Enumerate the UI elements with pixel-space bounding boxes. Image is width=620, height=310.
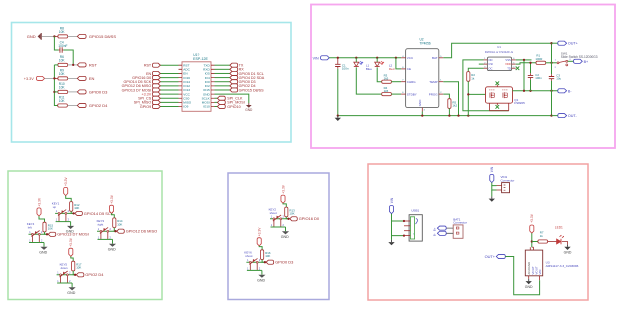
frame: keys middle section (purple) (228, 173, 329, 300)
port GPIO10 (U4 right pin) (215, 104, 241, 108)
junction KEY4 (46, 233, 48, 235)
port B+ (BAT1) (432, 226, 446, 231)
wire R13 to key junction (286, 217, 288, 219)
svg-text:+3.3V: +3.3V (64, 176, 68, 186)
svg-text:GND: GND (418, 99, 422, 107)
wire R11 to port (67, 105, 77, 107)
resistor R15 10K (43, 222, 54, 232)
wire R9 to port (68, 77, 78, 79)
wire VIN1 wiring (492, 183, 497, 197)
svg-text:TEMP: TEMP (429, 80, 437, 84)
wire R12 to key junction (71, 211, 73, 213)
resistor R9 10K (58, 69, 68, 80)
wire R8 to port (68, 35, 78, 37)
svg-text:+3.3V: +3.3V (258, 227, 262, 237)
wire R15 to key junction (45, 232, 48, 234)
svg-text:GPIO12 D6 MISO: GPIO12 D6 MISO (126, 229, 158, 234)
switch SW1 Slide Switch SS-12D00G3 (555, 52, 598, 69)
resistor R1 100R (535, 54, 545, 65)
junction R10 bus (53, 91, 55, 93)
svg-text:GND: GND (39, 251, 47, 255)
svg-text:+3.3V: +3.3V (110, 194, 114, 204)
svg-text:USB1: USB1 (411, 209, 419, 213)
svg-text:1k: 1k (540, 234, 544, 238)
svg-text:OD: OD (488, 58, 492, 62)
wire to OUT- port (552, 115, 558, 117)
svg-text:10K: 10K (59, 86, 66, 90)
svg-text:GND: GND (525, 285, 533, 289)
svg-text:10K: 10K (59, 99, 66, 103)
resistor R17 10K (72, 261, 82, 271)
svg-text:GPIO15 D8/SS: GPIO15 D8/SS (239, 88, 265, 92)
wire +3.3V node (531, 233, 533, 247)
wire U4 GND pin to ground (215, 94, 249, 103)
svg-text:down: down (61, 266, 68, 270)
capacitor C1 100n (335, 58, 349, 116)
net flag +3.3V (KEY1) (64, 176, 68, 195)
wire R17 to key junction (73, 271, 75, 275)
ground (U3) (525, 279, 533, 289)
junction switch common (550, 62, 552, 64)
svg-text:100R: 100R (535, 57, 542, 61)
transistor Q1 FS8205 (dual mosfet) (486, 85, 526, 111)
port OUT+ (to regulator) (485, 254, 506, 259)
connector VIN1 (497, 175, 515, 193)
svg-text:shoot: shoot (270, 211, 277, 215)
ground (U4 GND) (245, 103, 253, 112)
junction gnd TEMP (457, 114, 459, 116)
port GPIO14 D5 SCK (KEY1) (75, 211, 114, 216)
svg-text:GPIO13 D7 MOSI: GPIO13 D7 MOSI (57, 232, 89, 237)
junction R1/C2 (529, 62, 531, 64)
port GPIO2 D4 (U4 right pin) (215, 84, 256, 88)
svg-text:STDBY: STDBY (407, 92, 417, 96)
svg-text:shoot: shoot (245, 254, 252, 258)
svg-text:GND: GND (564, 251, 572, 255)
port VIN (USB) (389, 197, 393, 214)
svg-text:CHRG: CHRG (407, 80, 416, 84)
wire TEMP to ground rail (443, 82, 458, 116)
wire R4 to STDBY (391, 93, 401, 95)
svg-text:GND: GND (27, 34, 36, 39)
port GPIO4 D2 SDA (U4 right pin) (215, 76, 265, 80)
svg-text:10K: 10K (76, 266, 81, 270)
port EN (U4 left pin 3) (146, 71, 178, 75)
svg-text:1k5: 1k5 (384, 89, 389, 93)
port SPI_MOSI (U4 right pin) (215, 100, 245, 104)
wire VB rail (329, 57, 401, 59)
junction OUT+ (550, 42, 552, 44)
connector USB1 (404, 209, 422, 241)
port GPIO2 D4 (KEY5) (76, 272, 104, 277)
ground (LED1) (564, 245, 572, 255)
svg-text:10K: 10K (59, 59, 66, 63)
junction KEY3 (114, 230, 116, 232)
resistor R3 1k5 (382, 74, 392, 84)
wire to OUT+ port (552, 42, 558, 44)
port SPI_MISO (U4 left pin 10) (134, 100, 179, 104)
op module U4 ESP-12E body (179, 53, 215, 111)
junction KEY6 (264, 261, 266, 263)
svg-text:OUT+: OUT+ (568, 42, 578, 46)
svg-text:IO9: IO9 (183, 105, 188, 109)
wire R16 to key junction (262, 260, 265, 263)
wire +3.3V to bus (45, 77, 58, 79)
IC U1 DW01A or FS312F-G (484, 45, 516, 71)
wire VSS to B- row (516, 59, 532, 91)
junction gnd OC (467, 114, 469, 116)
port EN (pull) (77, 76, 94, 81)
svg-text:Connector: Connector (453, 221, 467, 225)
svg-text:1k: 1k (471, 76, 475, 80)
svg-text:VDD: VDD (505, 62, 511, 66)
junction B- C2 (529, 90, 531, 92)
port GPIO0 D3 (KEY6) (266, 260, 294, 265)
wire Q1 to B- row (513, 90, 558, 92)
resistor R16 10K (261, 250, 271, 260)
resistor R5 1k2 (448, 99, 458, 109)
svg-text:GPIO9: GPIO9 (140, 105, 151, 109)
svg-text:+3.3V: +3.3V (37, 197, 41, 207)
wire R1 to switch (546, 62, 557, 64)
svg-text:100n: 100n (342, 67, 349, 71)
svg-text:Red: Red (389, 67, 395, 71)
key button KEY4 left (27, 222, 48, 254)
svg-text:GPIO0 D3: GPIO0 D3 (89, 90, 108, 95)
IC U3 AMS1117-3.3 (525, 247, 578, 280)
junction USB gnd (403, 234, 405, 236)
svg-text:Blue: Blue (366, 67, 372, 71)
svg-text:GND: GND (245, 108, 253, 112)
junction KEY1 (72, 212, 74, 214)
net flag +3.3V (KEY4) (37, 197, 41, 216)
port GPIO16 D0 (KEY2) (290, 216, 320, 221)
wire C4 to RST net (63, 50, 73, 65)
svg-text:DW01A or FS312F-G: DW01A or FS312F-G (485, 50, 514, 54)
wire VDD to R1 (516, 63, 536, 64)
ground rail wire (338, 115, 552, 117)
svg-text:GPIO2 D4: GPIO2 D4 (89, 103, 108, 108)
svg-text:up: up (53, 205, 57, 209)
key button KEY2 shoot (269, 208, 290, 239)
junction B- VSS (523, 90, 525, 92)
svg-text:B-: B- (432, 233, 436, 236)
svg-text:VIN: VIN (313, 56, 319, 60)
LED L1 Blue (354, 58, 372, 71)
junction L2 (376, 57, 378, 59)
port GPIO13 D7 MOSI (KEY4) (48, 232, 89, 237)
resistor R6 10K (58, 55, 68, 66)
ground (USB) (388, 240, 394, 245)
svg-text:100n: 100n (535, 76, 542, 80)
svg-text:10u: 10u (556, 77, 561, 81)
svg-text:right: right (98, 223, 104, 227)
svg-text:B+: B+ (584, 60, 589, 64)
wire +3.3V to R17 (71, 256, 73, 261)
port B+ (574, 59, 589, 64)
wire switch to B+ (568, 60, 574, 62)
svg-text:FS8205: FS8205 (514, 101, 525, 105)
key button KEY5 down (57, 263, 76, 295)
frame: MCU section (cyan) (12, 23, 292, 143)
resistor R7 1k (538, 231, 548, 243)
wire L2 to R3 (377, 67, 382, 81)
wire PROG to R5 (443, 94, 449, 99)
resistor R11 10K (58, 96, 68, 107)
frame: power/charger section (pink) (311, 5, 615, 149)
wire +3.3V to R13 (283, 203, 286, 207)
port GPIO2 D4 (pull) (77, 103, 108, 108)
svg-text:GND: GND (67, 291, 75, 295)
power ground (charger) (335, 116, 341, 121)
net flag GND (pull-up network) (27, 33, 41, 40)
port GPIO0 D3 (pull) (77, 90, 108, 95)
svg-text:VIN: VIN (490, 166, 494, 172)
port GPIO15 D8/SS (pull) (77, 34, 116, 39)
net flag +3.3V (KEY3) (109, 194, 113, 213)
svg-text:AMS1117-3.3_C203096: AMS1117-3.3_C203096 (546, 264, 579, 268)
svg-text:GPIO0 D3: GPIO0 D3 (275, 260, 294, 265)
resistor R2 1k (467, 72, 476, 82)
svg-text:ESP-12E: ESP-12E (193, 57, 208, 61)
svg-text:10K: 10K (265, 254, 270, 258)
junction regulator output (531, 240, 533, 242)
svg-text:10K: 10K (48, 227, 53, 231)
junction VCC/CE (395, 57, 397, 59)
svg-text:TP4056: TP4056 (420, 41, 431, 45)
port GPIO13 D7 MOSI (U4 left pin 7) (122, 88, 179, 92)
svg-text:U1: U1 (497, 45, 501, 49)
svg-text:OUT+: OUT+ (485, 254, 496, 259)
svg-text:GPIO15 D8/SS: GPIO15 D8/SS (89, 34, 116, 39)
svg-text:10K: 10K (117, 222, 122, 226)
net flag +3.3V (KEY2) (281, 184, 285, 203)
svg-text:+3.3V: +3.3V (281, 184, 285, 194)
resistor R14 10K (113, 218, 123, 228)
port VIN (VIN1) (490, 166, 494, 183)
LED LED1 (555, 225, 564, 244)
wire U2 GND to rail (421, 112, 423, 116)
svg-text:PROG: PROG (429, 92, 439, 96)
svg-text:10K: 10K (59, 72, 66, 76)
svg-text:CE: CE (407, 67, 411, 71)
junction RST/C4 (72, 64, 74, 66)
junction C1 (337, 57, 339, 59)
wire GND to R8 (42, 35, 58, 37)
port GPIO16 D0 (U4 left pin 4) (132, 76, 178, 80)
port VIN (charger input) (313, 56, 330, 61)
svg-text:VSS: VSS (505, 58, 511, 62)
capacitor C3 10u (549, 74, 562, 81)
port B- (BAT1) (432, 231, 446, 236)
port SPI_CLK (U4 right pin) (215, 96, 244, 100)
port RX (U4 right pin) (215, 67, 245, 71)
junction gnd C1 (337, 114, 339, 116)
wire L1 to R4 (356, 67, 381, 94)
net flag +3.3V (KEY5) (69, 237, 73, 256)
svg-text:GPIO16 D0: GPIO16 D0 (299, 216, 320, 221)
port OUT- (558, 114, 578, 119)
svg-text:VIN: VIN (390, 197, 394, 203)
svg-text:+3.3V: +3.3V (69, 237, 73, 247)
port B- (558, 89, 573, 94)
svg-text:GPIO10: GPIO10 (227, 105, 240, 109)
port RST (U4 left pin 1) (144, 63, 179, 67)
wire OC to R2 (468, 68, 483, 71)
wire R7 to LED1 (548, 241, 557, 243)
svg-text:10K: 10K (74, 206, 79, 210)
svg-text:10K: 10K (289, 212, 294, 216)
junction KEY2 (287, 218, 289, 220)
svg-text:B+: B+ (432, 227, 436, 231)
svg-text:Connector: Connector (501, 178, 515, 182)
svg-text:RST: RST (144, 64, 152, 68)
svg-text:CSI: CSI (488, 62, 493, 66)
junction OUT- rail (550, 114, 552, 116)
svg-text:left: left (28, 226, 32, 230)
frame: power-in/regulator section (red) (368, 164, 588, 300)
junction GND/C4 (53, 35, 55, 37)
svg-text:1k2: 1k2 (452, 103, 457, 107)
wire OUT+ branch vertical (551, 43, 553, 115)
wire BAT up to top rail (443, 43, 551, 58)
svg-text:GPIO2 D4: GPIO2 D4 (85, 272, 104, 277)
wire R10 to port (68, 91, 78, 93)
svg-text:+3.3V: +3.3V (530, 213, 534, 223)
resistor R13 10K (285, 207, 295, 217)
frame: keys left section (green) (8, 171, 162, 300)
svg-text:1k5: 1k5 (384, 77, 389, 81)
ground (VIN1) (489, 196, 495, 201)
port GPIO12 D6 MISO (KEY3) (117, 229, 158, 234)
wire LED1 to ground (562, 242, 568, 245)
resistor R10 10K (54, 82, 67, 93)
capacitor C4 100nF (58, 41, 67, 53)
key button KEY3 right (97, 219, 117, 251)
IC U2 TP4056 (401, 38, 443, 112)
port GPIO12 D6 MISO (U4 left pin 6) (122, 84, 179, 88)
wire R2 to ground rail (467, 81, 485, 115)
no-connect X on TD (516, 66, 520, 70)
port GPIO15 D8/SS (U4 right pin) (215, 88, 265, 92)
wire R6 row (54, 64, 77, 66)
wire R3 to CHRG (391, 81, 401, 83)
no-connect X Q1 top (496, 81, 500, 85)
svg-text:VCC: VCC (407, 56, 414, 60)
svg-text:Slide Switch SS-12D00G3: Slide Switch SS-12D00G3 (561, 55, 598, 59)
wire +3.3V to R12 (66, 196, 72, 202)
resistor R12 10K (70, 202, 80, 212)
wire junction down to C4 (54, 36, 58, 50)
svg-text:100nF: 100nF (58, 44, 67, 48)
wire VIN to USB pins (392, 214, 405, 240)
connector BAT1 (446, 217, 467, 238)
wire OD to Q1 gate (463, 60, 509, 111)
svg-text:GPIO14 D5 SCK: GPIO14 D5 SCK (84, 211, 114, 216)
svg-text:IO10: IO10 (203, 105, 210, 109)
svg-text:GND: GND (108, 247, 116, 251)
wire node to R7 (532, 241, 538, 243)
svg-text:LED1: LED1 (555, 225, 563, 229)
wire +3.3V to R14 (112, 213, 115, 218)
junction B- switch branch (550, 90, 552, 92)
svg-text:GND: GND (281, 235, 289, 239)
junction L1 (355, 57, 357, 59)
svg-text:+3.3V: +3.3V (24, 77, 34, 81)
svg-text:BAT: BAT (432, 56, 438, 60)
wire CE tie to VCC (396, 58, 401, 69)
svg-text:10K: 10K (59, 30, 66, 34)
junction gnd U2 (421, 114, 423, 116)
svg-text:GND: GND (257, 278, 265, 282)
port GPIO9 (U4 left pin 11) (140, 104, 179, 108)
svg-text:RST: RST (89, 63, 98, 68)
wire R14 to key junction (114, 228, 115, 232)
svg-text:EN: EN (89, 76, 95, 81)
capacitor C2 100n (528, 63, 542, 91)
net flag +3.3V (regulator out) (530, 213, 534, 233)
port GPIO5 D1 SCL (U4 right pin) (215, 71, 264, 75)
port RST (pull) (77, 63, 97, 68)
port OUT+ (558, 41, 578, 46)
wire +3.3V to R16 (259, 246, 262, 250)
svg-text:VIN: VIN (538, 270, 542, 275)
junction USB vbus (403, 220, 405, 222)
key button KEY1 up (52, 201, 74, 233)
no-connect X Q1 bottom (496, 105, 500, 109)
junction KEY5 (74, 274, 76, 276)
key button KEY6 shoot (244, 251, 265, 283)
wire CSI stub (479, 63, 484, 65)
wire +3.3V to R15 (39, 216, 45, 222)
LED L2 Red (375, 58, 395, 71)
svg-text:OC: OC (488, 66, 492, 70)
svg-text:TD: TD (507, 66, 511, 70)
port GPIO14 D5 SCK (U4 left pin 5) (124, 80, 179, 84)
net flag +3.3V (pull-ups) (24, 76, 45, 81)
wire R5 to ground rail (448, 108, 450, 115)
port GPIO0 D3 (U4 right pin) (215, 80, 256, 84)
port TX (U4 right pin) (215, 63, 244, 67)
vertical pull-up bus wire (54, 65, 57, 106)
port SPI_CS (U4 left pin 9) (138, 96, 178, 100)
resistor R8 10K (58, 27, 68, 38)
port +3.3V (U4 left pin 8) (141, 92, 178, 96)
junction +3.3V bus (53, 77, 55, 79)
junction gnd R5 (448, 114, 450, 116)
net flag +3.3V (KEY6) (257, 227, 261, 246)
svg-text:OUT-: OUT- (568, 114, 578, 118)
resistor R4 1k5 (382, 86, 392, 96)
wire OUT+ to U3 VIN (505, 257, 539, 295)
